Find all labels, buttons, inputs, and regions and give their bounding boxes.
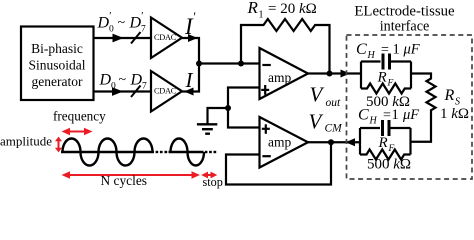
svg-text:CDAC: CDAC [154, 33, 177, 42]
svg-text:Sinusoidal: Sinusoidal [28, 58, 85, 73]
svg-text:= 20 kΩ: = 20 kΩ [268, 1, 317, 17]
svg-text:′: ′ [193, 9, 196, 24]
svg-text:D: D [130, 72, 143, 89]
svg-text:I: I [185, 68, 194, 92]
svg-text:R: R [247, 0, 259, 17]
svg-text:7: 7 [142, 82, 147, 92]
svg-text:V: V [309, 110, 324, 134]
svg-text:1: 1 [393, 42, 400, 58]
svg-text:amp: amp [268, 135, 291, 150]
svg-text:out: out [326, 97, 342, 109]
svg-text:~: ~ [118, 16, 126, 31]
svg-text:500 kΩ: 500 kΩ [367, 157, 411, 173]
svg-text:H: H [367, 50, 376, 61]
svg-text:ELectrode-tissue: ELectrode-tissue [354, 4, 455, 20]
svg-text:0: 0 [109, 25, 114, 35]
svg-text:Bi-phasic: Bi-phasic [31, 41, 83, 56]
svg-text:amp: amp [268, 70, 291, 85]
svg-text:1: 1 [259, 10, 264, 21]
svg-text:CM: CM [325, 123, 344, 135]
svg-text:7: 7 [141, 25, 146, 35]
svg-text:generator: generator [32, 74, 83, 89]
svg-text:=: = [381, 43, 389, 58]
svg-text:R: R [444, 87, 455, 104]
svg-text:C: C [356, 41, 367, 58]
svg-text:μF: μF [403, 42, 420, 58]
svg-text:amplitude: amplitude [0, 134, 52, 149]
svg-text:H: H [369, 116, 378, 127]
svg-text:CDAC: CDAC [154, 87, 177, 96]
svg-text:R: R [378, 135, 388, 151]
svg-text:F: F [388, 144, 395, 154]
svg-text:μF: μF [402, 107, 419, 123]
svg-text:1 kΩ: 1 kΩ [440, 106, 469, 122]
svg-text:F: F [387, 79, 394, 89]
svg-text:C: C [358, 107, 369, 124]
svg-text:1: 1 [392, 107, 399, 123]
svg-text:stop: stop [203, 175, 223, 189]
svg-text:R: R [377, 70, 387, 86]
svg-text:N cycles: N cycles [101, 173, 147, 188]
svg-text:frequency: frequency [53, 109, 106, 124]
svg-text:V: V [310, 83, 325, 107]
svg-text:~: ~ [119, 73, 127, 88]
svg-text:=: = [383, 108, 391, 123]
svg-text:interface: interface [380, 19, 430, 35]
svg-text:0: 0 [111, 82, 116, 92]
svg-text:D: D [99, 72, 112, 89]
